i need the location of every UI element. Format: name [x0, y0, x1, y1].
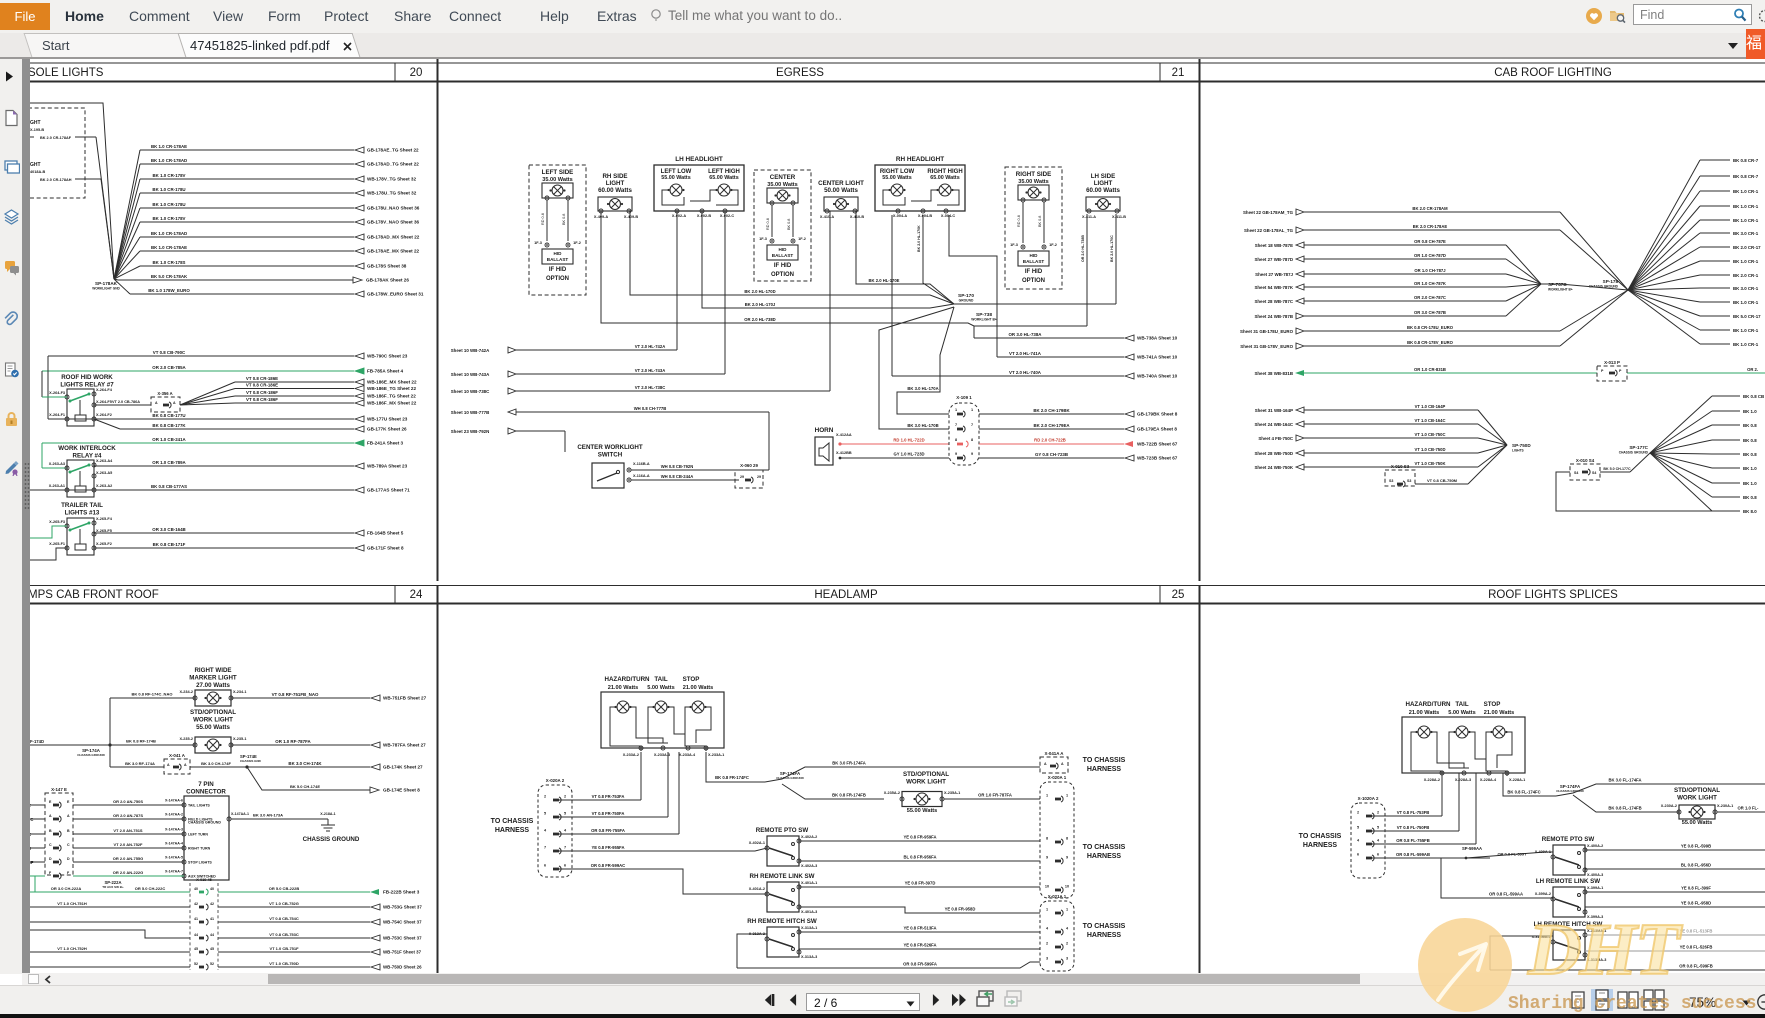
svg-text:WB-186F_MX Sheet 22: WB-186F_MX Sheet 22 — [367, 401, 417, 406]
svg-text:BK 0.8: BK 0.8 — [1743, 452, 1757, 457]
svg-text:GB-177K Sheet 26: GB-177K Sheet 26 — [367, 427, 407, 432]
svg-text:WB-751F Sheet 37: WB-751F Sheet 37 — [383, 950, 422, 955]
svg-text:P: P — [1601, 369, 1604, 373]
svg-text:X-004-B: X-004-B — [918, 214, 932, 218]
svg-text:Sheet 10 WB-743A: Sheet 10 WB-743A — [451, 372, 490, 377]
svg-text:VT 2.0 HL-740A: VT 2.0 HL-740A — [1009, 370, 1042, 375]
lamp hazard/turn tail stop cluster p6 — [1402, 701, 1525, 782]
svg-text:4: 4 — [1377, 839, 1380, 843]
wire VT 2.0 HL-741A drop — [949, 215, 997, 357]
wire BL 0.8 FR-956FA — [799, 855, 1040, 862]
svg-text:BK 0.8: BK 0.8 — [1743, 495, 1757, 500]
svg-text:BK 2.0 HL-170K: BK 2.0 HL-170K — [917, 225, 921, 252]
wire BK 2.0 CR-178AH — [75, 179, 114, 279]
svg-text:LIGHTS #13: LIGHTS #13 — [65, 509, 100, 516]
svg-text:5.00 Watts: 5.00 Watts — [1448, 710, 1475, 716]
svg-text:X-401A-3: X-401A-3 — [801, 910, 817, 914]
wire OR 1.0 CH-787K — [1254, 281, 1541, 290]
svg-text:BK 0.8: BK 0.8 — [787, 219, 791, 230]
svg-text:S4: S4 — [1574, 471, 1578, 475]
svg-text:STOP: STOP — [683, 676, 700, 683]
svg-text:TO CHASSIS: TO CHASSIS — [1083, 923, 1126, 930]
svg-text:BL 0.8 FR-956FA: BL 0.8 FR-956FA — [904, 855, 937, 860]
svg-text:OR 1.0 CH-787K: OR 1.0 CH-787K — [1414, 281, 1446, 286]
svg-text:4: 4 — [544, 829, 547, 833]
svg-text:WORK LIGHT: WORK LIGHT — [1677, 795, 1717, 802]
svg-text:GY 1.0 HL-723D: GY 1.0 HL-723D — [893, 452, 924, 457]
lamp std/optional work light 55W — [179, 737, 246, 753]
wire harness loop — [1556, 472, 1712, 511]
svg-text:HARNESS: HARNESS — [1303, 842, 1338, 849]
svg-text:BK 3.0 CH-174K: BK 3.0 CH-174K — [288, 761, 322, 766]
svg-text:D: D — [67, 857, 70, 861]
svg-text:BK 2.0 CR-178AM: BK 2.0 CR-178AM — [1412, 206, 1448, 211]
svg-text:7: 7 — [971, 423, 973, 427]
svg-text:VT 0.8 CB-753C: VT 0.8 CB-753C — [269, 932, 299, 937]
svg-text:WB-754C Sheet 37: WB-754C Sheet 37 — [383, 920, 422, 925]
svg-text:OR 3.0 CH-222A: OR 3.0 CH-222A — [51, 886, 82, 891]
wire VT 2.0 HL-742A from sheet 10 — [451, 211, 677, 353]
connector X-356 fan lines — [180, 382, 235, 405]
svg-text:40: 40 — [210, 887, 214, 891]
green feed relay4 — [42, 443, 67, 468]
svg-text:BK 3.0 RF-174A: BK 3.0 RF-174A — [125, 761, 155, 766]
svg-text:40: 40 — [194, 887, 198, 891]
svg-text:27.00 Watts: 27.00 Watts — [196, 682, 230, 689]
wire VT 0.8 FL-750FB p6 — [1371, 773, 1459, 831]
wire BK 2.0 CH-179BK — [979, 408, 1178, 417]
svg-text:OR 2.0 CB-785A: OR 2.0 CB-785A — [152, 365, 186, 370]
svg-text:X-265-F2: X-265-F2 — [96, 542, 112, 546]
connector X-147 E (dashed) — [45, 787, 73, 879]
svg-text:2: 2 — [1357, 811, 1359, 815]
svg-text:X-400A-2: X-400A-2 — [1587, 844, 1603, 848]
svg-text:9: 9 — [955, 452, 957, 456]
svg-text:X-109 1: X-109 1 — [956, 395, 972, 400]
svg-text:MPS CAB FRONT ROOF: MPS CAB FRONT ROOF — [28, 589, 159, 601]
connector 7 pin box — [165, 796, 249, 880]
svg-text:35.00 Watts: 35.00 Watts — [767, 182, 798, 188]
svg-text:IF HID: IF HID — [774, 263, 792, 269]
svg-text:X-265-F4: X-265-F4 — [96, 517, 113, 521]
svg-text:VT 1.0 CB-750D: VT 1.0 CB-750D — [269, 961, 299, 966]
svg-text:OR 3.0 HL-738A: OR 3.0 HL-738A — [1009, 332, 1043, 337]
wire VT 0.8 FL-753FB p6 — [1371, 773, 1442, 816]
svg-text:RH SIDE: RH SIDE — [602, 173, 627, 180]
svg-text:VT 0.8 FR-753FA: VT 0.8 FR-753FA — [592, 794, 625, 799]
svg-text:BK 1.0: BK 1.0 — [1743, 481, 1757, 486]
svg-text:F: F — [49, 871, 52, 875]
svg-text:BK 0.8 CB-171F: BK 0.8 CB-171F — [153, 542, 186, 547]
svg-text:BK 2.0 CH-179EA: BK 2.0 CH-179EA — [1033, 423, 1070, 428]
svg-text:WB-753G Sheet 37: WB-753G Sheet 37 — [383, 905, 422, 910]
svg-text:6: 6 — [1357, 853, 1359, 857]
lamp RH SIDE LIGHT 60W — [594, 173, 638, 219]
splice SP-750D lights — [1512, 443, 1531, 453]
wire OR 0.8 FL-755FB p6 — [1371, 773, 1476, 844]
svg-text:X-264-F3: X-264-F3 — [49, 391, 65, 395]
wire GY 0.8 CH-723B — [979, 452, 1178, 461]
svg-text:VT 0.8 CR-186F: VT 0.8 CR-186F — [246, 390, 278, 395]
svg-text:GROUND: GROUND — [959, 299, 974, 303]
label to chassis harness p6 — [1299, 833, 1342, 849]
svg-text:BK 0.8 FL-174FB: BK 0.8 FL-174FB — [1608, 806, 1641, 811]
svg-text:SP-750D: SP-750D — [1512, 443, 1531, 448]
svg-text:9: 9 — [1066, 856, 1068, 860]
svg-text:X-313A-1: X-313A-1 — [801, 926, 817, 930]
svg-text:YE 0.8 FR-397D: YE 0.8 FR-397D — [905, 881, 936, 886]
svg-text:21.00 Watts: 21.00 Watts — [608, 685, 639, 691]
svg-text:BK 1.0 CR-1: BK 1.0 CR-1 — [1733, 328, 1759, 333]
svg-text:OR 1.0 FL-: OR 1.0 FL- — [1738, 806, 1760, 811]
svg-text:BK 0.8 FL-174FC: BK 0.8 FL-174FC — [1507, 790, 1540, 795]
svg-text:25: 25 — [1172, 589, 1185, 601]
svg-text:HARNESS: HARNESS — [1087, 766, 1122, 773]
connector X-060 29 (dashed) — [735, 463, 763, 488]
svg-text:X-409-B: X-409-B — [624, 215, 638, 219]
ground chassis ground symbol — [303, 812, 360, 843]
svg-text:OR 1.0 CB-241A: OR 1.0 CB-241A — [152, 437, 186, 442]
svg-text:OR 2.: OR 2. — [1747, 367, 1758, 372]
label to chassis harness bottom right — [1083, 923, 1126, 939]
svg-text:X-233A-2: X-233A-2 — [623, 753, 639, 757]
svg-text:9: 9 — [971, 452, 973, 456]
svg-text:X-234-1: X-234-1 — [233, 690, 247, 694]
relay K13 trailer tail lights — [49, 517, 113, 555]
svg-text:SWITCH: SWITCH — [598, 452, 623, 459]
svg-text:Sheet 31 GB-178V_EURO: Sheet 31 GB-178V_EURO — [1240, 344, 1293, 349]
svg-text:WORKLIGHT B+: WORKLIGHT B+ — [1548, 288, 1573, 292]
svg-text:VT 0.8 FL-753FB: VT 0.8 FL-753FB — [1397, 810, 1430, 815]
relay K7 roof HID work lights — [49, 388, 113, 426]
svg-text:Sheet 18 WB-787E: Sheet 18 WB-787E — [1255, 243, 1293, 248]
svg-text:9: 9 — [1046, 856, 1048, 860]
svg-text:VT 0.8 FL-750FB: VT 0.8 FL-750FB — [1397, 825, 1430, 830]
svg-text:6: 6 — [564, 864, 566, 868]
wire BK 1.0 178W_EURO — [130, 288, 424, 297]
svg-text:E: E — [67, 800, 70, 804]
svg-text:Sheet 28 WB-750D: Sheet 28 WB-750D — [1254, 451, 1293, 456]
svg-text:X-263-A3: X-263-A3 — [49, 462, 65, 466]
wire BK 1.0 CR-178U — [140, 187, 417, 196]
wire SP-599AA bus — [1371, 852, 1553, 859]
svg-text:GHT: GHT — [30, 162, 41, 168]
svg-text:YE 0.8 FR-513FA: YE 0.8 FR-513FA — [903, 926, 936, 931]
svg-text:BK 1.0 CR-178V: BK 1.0 CR-178V — [153, 173, 186, 178]
wire OR 0.8 FR-755FA — [558, 752, 679, 834]
wire OR 3.0 CB-164B — [94, 527, 404, 536]
black feed relay13 — [28, 548, 67, 560]
svg-text:BK 3.0 AN-173A: BK 3.0 AN-173A — [253, 813, 283, 818]
svg-text:BK 0.8 CB: BK 0.8 CB — [1743, 394, 1764, 399]
wire OR 1.0 CR-831B (green) — [1254, 367, 1765, 376]
wire VT 2.0 HL-741A — [997, 351, 1178, 360]
wire OR 1.0 CH-787J — [1255, 268, 1541, 284]
svg-text:24: 24 — [410, 589, 423, 601]
wire VT 1.0 CB-164C — [1254, 418, 1507, 445]
svg-text:65.00 Watts: 65.00 Watts — [930, 175, 959, 181]
svg-text:X-265-F5: X-265-F5 — [96, 529, 112, 533]
application menu bar — [0, 0, 1765, 33]
svg-text:OR 2.0 AN-222G: OR 2.0 AN-222G — [113, 870, 144, 875]
svg-text:Sheet 28 WB-787C: Sheet 28 WB-787C — [1254, 299, 1293, 304]
wire OR 2.0 AN-750S — [28, 799, 184, 808]
svg-text:4: 4 — [1066, 927, 1069, 931]
svg-text:BALLAST: BALLAST — [547, 257, 569, 262]
svg-text:A: A — [1044, 762, 1047, 766]
svg-text:WH 0.8 CH-777B: WH 0.8 CH-777B — [634, 406, 667, 411]
wire VT 0.8 CR-186F — [235, 397, 417, 406]
svg-text:P: P — [1619, 369, 1622, 373]
svg-text:X-002-B: X-002-B — [697, 214, 711, 218]
svg-text:X-411-A: X-411-A — [1082, 215, 1096, 219]
svg-text:X-116A-A: X-116A-A — [633, 474, 650, 478]
svg-text:X-313A-3: X-313A-3 — [801, 955, 817, 959]
wire BK 5.0 CH-174E — [275, 784, 420, 793]
svg-text:X-265-F1: X-265-F1 — [49, 542, 65, 546]
svg-text:8: 8 — [1066, 837, 1068, 841]
svg-text:REMOTE PTO SW: REMOTE PTO SW — [756, 827, 809, 834]
svg-text:BK 1.0 CR-1: BK 1.0 CR-1 — [1733, 218, 1759, 223]
svg-text:A: A — [155, 401, 158, 405]
wire VT 0.8 CB-754C — [28, 916, 422, 925]
svg-text:HAZARD/TURN: HAZARD/TURN — [1405, 701, 1451, 708]
svg-text:60.00 Watts: 60.00 Watts — [598, 187, 632, 194]
switch RH remote hitch — [747, 918, 817, 959]
wire to relay7 coil — [42, 396, 67, 398]
svg-text:TR AUX SW B+: TR AUX SW B+ — [102, 885, 124, 889]
svg-text:FB-785A Sheet 4: FB-785A Sheet 4 — [367, 369, 404, 374]
svg-text:1: 1 — [1066, 794, 1068, 798]
svg-text:YE 0.8 FL-599B: YE 0.8 FL-599B — [1681, 844, 1711, 849]
wire OR 3.0 CH-787B — [1254, 284, 1541, 319]
svg-text:D: D — [49, 857, 52, 861]
svg-text:X-402A-3: X-402A-3 — [801, 864, 817, 868]
svg-text:IF HID: IF HID — [1025, 269, 1043, 275]
svg-text:VT 1.0 CH-752H: VT 1.0 CH-752H — [57, 946, 87, 951]
svg-text:X-013 P: X-013 P — [1604, 360, 1620, 365]
splice SP-178 chassis ground — [1589, 279, 1619, 289]
wire BK 5.0 CR-178AK — [118, 274, 409, 283]
svg-text:TO CHASSIS: TO CHASSIS — [1299, 833, 1342, 840]
svg-text:X-010 S3: X-010 S3 — [1391, 464, 1410, 469]
svg-text:3: 3 — [1066, 957, 1068, 961]
wire BK 3.0 CH-174K — [247, 761, 423, 770]
svg-text:X-020A 1: X-020A 1 — [1048, 775, 1067, 780]
svg-text:X-265-F3: X-265-F3 — [49, 520, 65, 524]
svg-text:OR 2.0 HL-738D: OR 2.0 HL-738D — [744, 317, 775, 322]
svg-text:Sheet 10 WB-738C: Sheet 10 WB-738C — [451, 389, 490, 394]
wire BK 0.8 CB-171F — [94, 542, 404, 551]
svg-text:S4: S4 — [1592, 471, 1596, 475]
svg-text:GB-178S Sheet 38: GB-178S Sheet 38 — [367, 264, 407, 269]
svg-text:OR 0.8 CH-787E: OR 0.8 CH-787E — [1414, 239, 1446, 244]
connector X-020A 1 (dashed) — [1040, 775, 1074, 898]
wire VT 1.0 CB-750K — [1254, 445, 1507, 470]
svg-text:BK 1.0 CR-1: BK 1.0 CR-1 — [1733, 300, 1759, 305]
svg-text:X-228A-3: X-228A-3 — [1455, 778, 1471, 782]
svg-text:2: 2 — [1066, 942, 1068, 946]
wire BK 0.8 RF-174B — [110, 739, 195, 746]
svg-text:7 PIN: 7 PIN — [198, 781, 214, 788]
wire OR 1.0 FL-787 — [1717, 806, 1765, 813]
svg-text:WORKLIGHT B+: WORKLIGHT B+ — [971, 318, 997, 322]
svg-text:RIGHT SIDE: RIGHT SIDE — [1016, 171, 1051, 178]
svg-text:WB-741A Sheet 10: WB-741A Sheet 10 — [1137, 355, 1178, 360]
wire BK 2.0 CH-179EA — [979, 423, 1177, 432]
wire BK 0.8 CR-178U_EURO — [1240, 290, 1628, 334]
wire YE 0.8 FL-526FB — [1585, 945, 1765, 952]
svg-text:RD 0.8: RD 0.8 — [766, 218, 770, 230]
splice SP-174FA p6 — [1556, 784, 1584, 793]
svg-text:X-228A-2: X-228A-2 — [1424, 778, 1440, 782]
svg-text:YE 0.8 FL-399F: YE 0.8 FL-399F — [1681, 886, 1711, 891]
svg-text:EGRESS: EGRESS — [776, 67, 824, 79]
svg-text:OR 2.0 AN-755G: OR 2.0 AN-755G — [113, 856, 144, 861]
svg-text:6: 6 — [544, 864, 546, 868]
svg-text:VT 0.8 RF-751FB_NAO: VT 0.8 RF-751FB_NAO — [272, 692, 319, 697]
splice SP-177C right fan wires — [1650, 394, 1764, 514]
svg-text:GB-178V_NAO Sheet 36: GB-178V_NAO Sheet 36 — [367, 220, 420, 225]
label roof hid work lights relay — [60, 374, 114, 388]
wire BK 0.8 CB-177K — [120, 423, 407, 432]
svg-text:SOLE LIGHTS: SOLE LIGHTS — [28, 67, 104, 79]
svg-text:OR 3.0 CH-787B: OR 3.0 CH-787B — [1414, 310, 1446, 315]
svg-text:5: 5 — [544, 812, 546, 816]
splice SP-738 worklight B+ — [971, 312, 997, 322]
svg-text:OR 1.0 CB-789A: OR 1.0 CB-789A — [152, 460, 186, 465]
svg-text:X-228A-4: X-228A-4 — [1480, 778, 1497, 782]
svg-text:X-399A-2: X-399A-2 — [1535, 892, 1551, 896]
svg-text:X-021A 1: X-021A 1 — [1048, 894, 1067, 899]
svg-text:X-264-F2: X-264-F2 — [96, 413, 112, 417]
svg-text:STD/OPTIONAL: STD/OPTIONAL — [190, 709, 236, 716]
wire BK 0.8 CR-178V_EURO — [1240, 290, 1628, 349]
wire BK 1.0 CR-178V — [140, 216, 420, 225]
svg-text:BK 1.0 CR-178AD: BK 1.0 CR-178AD — [151, 231, 187, 236]
wire VT 2.0 HL-738C from sheet 10 — [451, 211, 830, 394]
svg-text:LH REMOTE LINK SW: LH REMOTE LINK SW — [1536, 878, 1600, 885]
svg-text:21.00 Watts: 21.00 Watts — [1409, 710, 1440, 716]
svg-text:BK 5.0 CH-174E: BK 5.0 CH-174E — [290, 784, 320, 789]
lamp CENTER LIGHT 50W — [818, 180, 864, 219]
splice SP-787B worklight B+ — [1548, 282, 1573, 292]
svg-text:BK 0.8 CR-178U_EURO: BK 0.8 CR-178U_EURO — [1407, 325, 1454, 330]
svg-text:CAB ROOF LIGHTING: CAB ROOF LIGHTING — [1494, 67, 1612, 79]
wire VT 0.8 FR-750FA — [558, 752, 668, 817]
svg-text:YE 0.8 FR-959FA: YE 0.8 FR-959FA — [903, 835, 936, 840]
svg-text:VT 2.0 HL-738C: VT 2.0 HL-738C — [635, 385, 666, 390]
svg-text:21.00 Watts: 21.00 Watts — [683, 685, 714, 691]
svg-text:REMOTE PTO SW: REMOTE PTO SW — [1542, 836, 1595, 843]
svg-text:44: 44 — [194, 933, 198, 937]
svg-text:BK 8.0: BK 8.0 — [1743, 509, 1757, 514]
svg-text:1: 1 — [1046, 794, 1048, 798]
svg-text:ROOF LIGHTS SPLICES: ROOF LIGHTS SPLICES — [1488, 589, 1618, 601]
svg-text:CHASSIS GROUND: CHASSIS GROUND — [77, 753, 105, 757]
svg-text:C: C — [67, 843, 70, 847]
wire VT 0.8 CR-186E — [235, 376, 417, 385]
wire VT 1.0 CB-751F — [28, 946, 422, 955]
wire VT 0.8 RF-751FB_NAO — [231, 692, 427, 701]
svg-text:VT 1.0 CB-751F: VT 1.0 CB-751F — [269, 946, 299, 951]
wire OR 1.0 CB-789A — [94, 460, 408, 469]
svg-text:X-147AA-1: X-147AA-1 — [231, 812, 249, 816]
svg-text:X-401A-1: X-401A-1 — [801, 881, 817, 885]
wire YE 0.8 FR-526FA — [799, 943, 1040, 950]
wire WH 0.8 CB-244A — [631, 474, 739, 480]
svg-text:RD 2.0 CH-722B: RD 2.0 CH-722B — [1034, 438, 1066, 443]
svg-text:X-234-2: X-234-2 — [179, 690, 193, 694]
svg-text:HID: HID — [1030, 253, 1039, 258]
svg-text:1: 1 — [971, 408, 973, 412]
wire OR 2.0 AN-787S — [28, 813, 184, 822]
switch center worklight — [577, 444, 650, 488]
splice SP-178AK worklight gnd fan — [92, 150, 140, 294]
svg-text:X-400A-1: X-400A-1 — [1535, 850, 1551, 854]
svg-text:BK 3.0 FR-174FA: BK 3.0 FR-174FA — [832, 761, 866, 766]
connector X-1020A 2 (dashed) — [1351, 796, 1385, 878]
connector X-020A 2 (dashed) — [538, 778, 572, 877]
svg-text:X-233A-1: X-233A-1 — [708, 753, 724, 757]
svg-text:8: 8 — [1046, 837, 1048, 841]
svg-text:X-116B-A: X-116B-A — [633, 462, 650, 466]
lamp right wide marker light 27W — [179, 690, 246, 706]
svg-text:Sheet 10 WB-777B: Sheet 10 WB-777B — [451, 410, 490, 415]
svg-text:F-174D: F-174D — [30, 739, 44, 744]
svg-text:VT 1.0 CB-750C: VT 1.0 CB-750C — [1415, 432, 1446, 437]
connector boxes X-195-B / 4018A-B (dashed) — [28, 108, 85, 198]
splice SP-174A chassis ground — [77, 743, 111, 757]
svg-text:VT 2.0 HL-743A: VT 2.0 HL-743A — [635, 368, 666, 373]
svg-text:BK 2.0 HL-170C: BK 2.0 HL-170C — [1110, 235, 1114, 262]
switch LH remote link — [1535, 878, 1604, 919]
svg-text:WH 0.8 CB-244A: WH 0.8 CB-244A — [661, 474, 694, 479]
wire BK 0.8 FL-174FB — [1573, 795, 1679, 812]
svg-text:WB-787FA Sheet 27: WB-787FA Sheet 27 — [383, 743, 426, 748]
svg-text:X-235-1: X-235-1 — [233, 737, 247, 741]
wire VT 2.0 HL-740A drop — [891, 215, 893, 376]
wire BK 3.0 CH-174F — [190, 761, 249, 769]
svg-text:OR 3.0 CB-164B: OR 3.0 CB-164B — [152, 527, 185, 532]
wire VT 2.0 AN-751S — [28, 828, 184, 837]
svg-text:X-263-A2: X-263-A2 — [96, 484, 112, 488]
svg-text:X-412AA: X-412AA — [836, 433, 852, 437]
svg-text:BALLAST: BALLAST — [1023, 259, 1045, 264]
svg-text:TO CHASSIS: TO CHASSIS — [491, 818, 534, 825]
wire BK 2.0 HL-170J — [702, 211, 954, 308]
svg-text:S3: S3 — [1389, 479, 1393, 483]
wire YE 0.8 FL-958D — [1585, 901, 1765, 908]
svg-text:X-264-F5: X-264-F5 — [96, 400, 112, 404]
wire VT 2.0 AN-752F — [28, 842, 184, 851]
svg-text:1F-2: 1F-2 — [798, 237, 806, 241]
svg-text:VT 0.8 FR-750FA: VT 0.8 FR-750FA — [592, 811, 625, 816]
wire OR 2.0 HL-738D — [601, 211, 974, 326]
svg-text:LH HEADLIGHT: LH HEADLIGHT — [675, 156, 723, 163]
svg-text:VT 0.8 CR-186E: VT 0.8 CR-186E — [246, 376, 278, 381]
label trailer tail lights — [61, 502, 103, 516]
wire OR 2.0 AN-755G — [28, 856, 184, 865]
wire OR 3.0 CH-222A / OR 5.0 CH-222C (green) — [28, 880, 190, 892]
svg-text:RD 0.8: RD 0.8 — [1017, 215, 1021, 227]
wire BK 1.0 CR-178U — [140, 202, 420, 211]
svg-text:VT 2.0 HL-742A: VT 2.0 HL-742A — [635, 344, 666, 349]
splice SP-178 right fan wires — [1628, 158, 1761, 347]
svg-text:BK 2.0 CR-178AE: BK 2.0 CR-178AE — [1413, 224, 1448, 229]
wire VT 1.0 CB-750D — [1254, 445, 1507, 456]
svg-text:BK 0.8 CB-177U: BK 0.8 CB-177U — [152, 413, 185, 418]
